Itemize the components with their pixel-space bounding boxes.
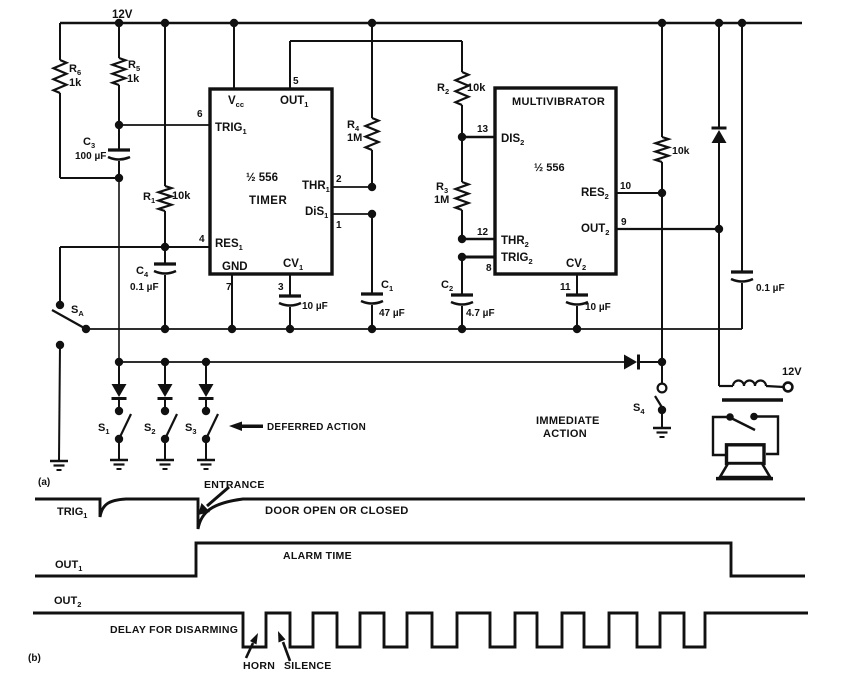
svg-text:12V: 12V — [112, 9, 133, 21]
svg-text:2: 2 — [336, 174, 342, 185]
svg-text:4: 4 — [199, 234, 205, 245]
svg-text:5: 5 — [293, 76, 299, 87]
svg-text:(b): (b) — [28, 653, 41, 664]
svg-text:6: 6 — [197, 109, 203, 120]
svg-text:0.1 µF: 0.1 µF — [756, 283, 785, 294]
svg-text:RES1: RES1 — [215, 238, 243, 252]
svg-text:MULTIVIBRATOR: MULTIVIBRATOR — [512, 96, 605, 108]
svg-text:1: 1 — [336, 220, 342, 231]
svg-text:10k: 10k — [467, 82, 486, 94]
svg-text:SILENCE: SILENCE — [284, 660, 332, 672]
svg-text:1k: 1k — [69, 77, 82, 89]
svg-text:DOOR OPEN OR CLOSED: DOOR OPEN OR CLOSED — [265, 505, 409, 517]
svg-text:12: 12 — [477, 227, 489, 238]
svg-text:DELAY FOR DISARMING: DELAY FOR DISARMING — [110, 624, 238, 636]
svg-text:10k: 10k — [672, 145, 690, 157]
svg-text:TRIG2: TRIG2 — [501, 252, 533, 266]
svg-text:1M: 1M — [347, 132, 362, 144]
svg-text:12V: 12V — [782, 366, 802, 378]
svg-text:0.1 µF: 0.1 µF — [130, 282, 159, 293]
svg-text:OUT1: OUT1 — [280, 95, 308, 109]
svg-text:3: 3 — [278, 282, 284, 293]
svg-text:½ 556: ½ 556 — [534, 162, 565, 174]
svg-text:10: 10 — [620, 181, 632, 192]
svg-text:10 µF: 10 µF — [302, 301, 328, 312]
svg-text:11: 11 — [560, 282, 571, 293]
svg-text:DEFERRED ACTION: DEFERRED ACTION — [267, 422, 366, 433]
svg-text:TRIG1: TRIG1 — [215, 122, 247, 136]
svg-text:OUT2: OUT2 — [581, 223, 609, 237]
svg-text:9: 9 — [621, 217, 627, 228]
svg-text:8: 8 — [486, 263, 492, 274]
svg-text:4.7 µF: 4.7 µF — [466, 308, 495, 319]
svg-text:GND: GND — [222, 261, 248, 273]
svg-text:ENTRANCE: ENTRANCE — [204, 479, 265, 491]
svg-text:1k: 1k — [127, 73, 140, 85]
svg-text:100 µF: 100 µF — [75, 151, 106, 162]
svg-text:47 µF: 47 µF — [379, 308, 405, 319]
svg-text:RES2: RES2 — [581, 187, 609, 201]
svg-text:ACTION: ACTION — [543, 428, 587, 440]
svg-text:10 µF: 10 µF — [585, 302, 611, 313]
svg-text:TIMER: TIMER — [249, 195, 287, 207]
svg-text:IMMEDIATE: IMMEDIATE — [536, 415, 600, 427]
svg-text:(a): (a) — [38, 477, 50, 488]
svg-text:½ 556: ½ 556 — [246, 172, 278, 184]
svg-text:7: 7 — [226, 282, 232, 293]
svg-text:1M: 1M — [434, 194, 449, 206]
svg-text:HORN: HORN — [243, 660, 275, 672]
svg-text:13: 13 — [477, 124, 489, 135]
svg-text:TRIG1: TRIG1 — [57, 506, 87, 520]
svg-text:10k: 10k — [172, 190, 191, 202]
svg-text:ALARM TIME: ALARM TIME — [283, 550, 352, 562]
